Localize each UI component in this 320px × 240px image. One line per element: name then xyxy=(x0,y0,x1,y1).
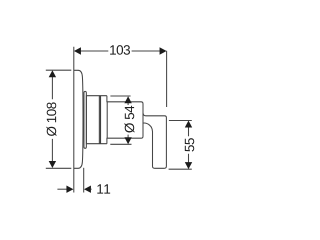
dimension D108: bottom extension line xyxy=(46,167,72,169)
sleeve cylinder xyxy=(86,96,107,144)
sleeve seam line 1 xyxy=(98,96,100,144)
dimension 11: text xyxy=(97,184,110,193)
wall / extension line left (plate back edge, 103 + 11 datum) xyxy=(73,47,75,193)
dimension 55: bottom arrow xyxy=(185,162,192,169)
dimension 103: left arrow xyxy=(74,47,81,54)
dimension D54: bottom extension line xyxy=(110,143,131,145)
dimension 55: text xyxy=(185,138,194,151)
dimension 11: right extension line xyxy=(83,168,85,193)
lever grip (bent rod, side view) xyxy=(143,113,167,168)
dimension D108: text xyxy=(46,102,56,136)
dimension D54: text xyxy=(124,106,134,133)
dimension D108: line xyxy=(51,77,53,162)
dimension 55: bottom extension line xyxy=(169,168,192,170)
plate collar ring xyxy=(84,91,86,148)
dimension 103: right arrow xyxy=(160,47,167,54)
escutcheon plate (side view) xyxy=(74,70,83,168)
dimension 11: right arrow xyxy=(84,186,91,193)
dimension D54: bottom arrow xyxy=(124,137,131,144)
dimension D54: line xyxy=(127,103,129,138)
dimension D108: top extension line xyxy=(46,69,72,71)
dimension 55: top arrow xyxy=(185,121,192,128)
dimension 11: left arrow xyxy=(66,186,73,193)
dimension 103: right extension line xyxy=(166,51,168,107)
dimension D108: top arrow xyxy=(49,70,56,77)
dimension D54: top arrow xyxy=(124,96,131,103)
dimension 11: right leader line xyxy=(91,188,92,190)
dimension 55: line xyxy=(188,127,190,163)
dimension 11: left leader line xyxy=(57,188,67,190)
dimension 103: text xyxy=(110,45,130,55)
dimension D108: bottom arrow xyxy=(49,161,56,168)
sleeve seam line 2 xyxy=(100,96,102,144)
dimension 55: top extension line xyxy=(169,120,192,122)
handle hub block xyxy=(107,102,143,138)
dimension 103: line xyxy=(80,50,160,52)
dimension D54: top extension line xyxy=(110,95,130,97)
